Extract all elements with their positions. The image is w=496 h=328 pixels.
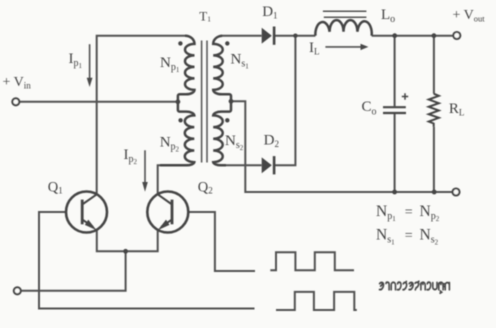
svg-text:Np1: Np1 [160, 55, 180, 74]
svg-text:Q1: Q1 [48, 179, 63, 195]
svg-text:Ns1: Ns1 [231, 52, 250, 71]
svg-text:Np1=Np2: Np1=Np2 [376, 203, 440, 223]
svg-text:D2: D2 [264, 132, 279, 149]
svg-text:T1: T1 [199, 9, 211, 24]
svg-text:Ns2: Ns2 [225, 133, 244, 152]
svg-text:RL: RL [449, 101, 465, 118]
svg-text:Lo: Lo [381, 7, 395, 25]
svg-text:+ Vout: + Vout [453, 8, 486, 24]
svg-text:Q2: Q2 [198, 179, 213, 195]
svg-text:Ip1: Ip1 [69, 51, 83, 70]
svg-text:D1: D1 [262, 4, 277, 21]
svg-text:Np2: Np2 [160, 134, 180, 153]
svg-text:Ip2: Ip2 [124, 147, 138, 166]
svg-text:Co: Co [362, 99, 377, 117]
svg-text:Ns1=Ns2: Ns1=Ns2 [376, 226, 439, 246]
svg-text:IL: IL [309, 40, 320, 57]
svg-text:+ Vin: + Vin [3, 75, 32, 91]
